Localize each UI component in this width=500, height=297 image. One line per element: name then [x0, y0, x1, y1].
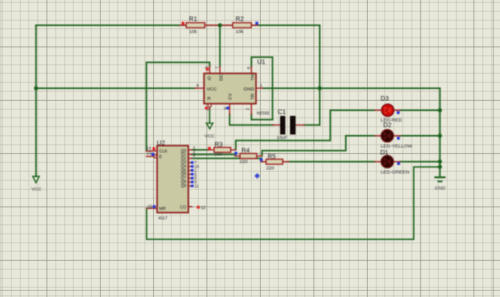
wire: U2 Q2 to R5 [192, 158, 262, 161]
IC U2 4017 counter [146, 140, 206, 220]
pin stub: U2 E pin13 [146, 155, 154, 157]
pin stub: U1 pin2 TR [250, 104, 252, 115]
pin stub: U2 MR pin15 [147, 207, 158, 209]
svg-text:Q9: Q9 [181, 183, 187, 188]
capacitor C1 [277, 109, 296, 140]
wire: U2 Q0 to R3 [192, 149, 209, 151]
svg-text:C1: C1 [278, 109, 287, 116]
node marker: blue diamond below R4/R5 [254, 173, 260, 179]
resistor R4 [240, 148, 257, 166]
resistor R1 [186, 16, 205, 35]
U1 pin4 inversion bubble [208, 104, 211, 107]
svg-text:R: R [207, 96, 211, 102]
wire: LED cathode bus vertical to GND [439, 88, 441, 176]
node: junction GND wire / C1 vertical [318, 86, 322, 90]
pin stub: D3 leads [375, 109, 400, 111]
IC U1 NE555 timer [196, 59, 270, 115]
node: junction VCC rail / pin8 [34, 86, 38, 90]
svg-text:LED-GREEN: LED-GREEN [381, 170, 410, 176]
wire: U1 R pin4 to VCC arrow [209, 109, 211, 124]
logic-state dots blue: U2 Q3..Q9 [191, 161, 194, 164]
resistor R5 [266, 153, 283, 171]
node: junction R1/R2/pin7 [218, 23, 222, 27]
logic-state dot red: U1 pin4 [205, 107, 208, 110]
resistor R3 [214, 142, 231, 158]
pin stub: U1 pin1 GND [256, 87, 263, 89]
pin stub: U1 pin3 Q [209, 67, 211, 74]
logic-state dot blue: U1 pin5 [226, 107, 229, 110]
svg-text:Q: Q [207, 76, 211, 82]
wire: U1 GND pin 1 to LED cathode bus [262, 87, 440, 89]
wire: D2 cathode to bus [400, 135, 440, 137]
logic-state dot red: U1 pin3 [206, 68, 209, 71]
pin stub: U1 pin7 DC [219, 67, 221, 74]
pin stub: R1 leads [180, 24, 217, 26]
svg-text:R5: R5 [268, 153, 277, 160]
svg-text:6: 6 [246, 66, 251, 69]
LED D2 (LED-YELLOW, off) [381, 122, 413, 150]
svg-text:220: 220 [214, 152, 222, 158]
wire: U1 TR pin2 to TH loop [251, 114, 272, 120]
wire: R4 to D2 anode [262, 136, 375, 156]
wire: U1 Q pin3 down-left to U2 CLK [146, 62, 209, 150]
svg-text:DC: DC [218, 73, 224, 80]
svg-text:4017: 4017 [158, 215, 168, 220]
wire: U1 TH pin6 loop to TR [251, 57, 272, 120]
node: junction bus / MR return [438, 165, 442, 169]
power terminal VCC (left) [33, 176, 39, 182]
wire: left VCC terminal vertical [35, 25, 37, 176]
wire: R5 to D1 anode [288, 161, 376, 163]
ground GND terminal [434, 177, 445, 181]
pin stub: D1 leads [375, 161, 400, 163]
wire: C1 right lead to vertical [304, 124, 320, 126]
logic-state dot blue: D3 right [397, 111, 400, 114]
svg-text:TH: TH [250, 74, 256, 81]
svg-text:7: 7 [214, 66, 219, 69]
svg-text:2: 2 [245, 107, 250, 110]
svg-text:D3: D3 [381, 96, 390, 103]
pin stub: C1 leads [273, 124, 305, 126]
svg-text:15: 15 [147, 204, 152, 209]
svg-text:E: E [159, 154, 162, 159]
node: junction bus / D2 [438, 134, 442, 138]
logic-state dot blue: R2 right [255, 22, 258, 25]
pin stub: R5 leads [262, 161, 289, 163]
pin stub: U1 pin5 CV [229, 104, 231, 115]
logic-state dot red: U2 CLK [153, 147, 156, 150]
svg-text:U1: U1 [257, 59, 266, 66]
svg-text:MR: MR [159, 206, 166, 211]
resistor R2 [233, 16, 252, 35]
node: junction bus / D1 [438, 160, 442, 164]
wire: U1 DC pin7 up to R1/R2 junction [219, 25, 221, 66]
svg-text:VCC: VCC [205, 133, 216, 139]
pin stub: U2 Q0..Q9,CO right stubs [188, 150, 191, 207]
logic-state dot blue: U2 MR [153, 205, 156, 208]
svg-text:10k: 10k [236, 29, 244, 35]
pin stub: R3 leads [208, 149, 236, 151]
pin stub: U1 pin8 VCC [195, 87, 204, 89]
svg-text:R3: R3 [215, 142, 224, 149]
svg-text:U2: U2 [157, 140, 166, 147]
wire: VCC rail top horizontal [36, 24, 320, 26]
svg-text:VCC: VCC [31, 186, 42, 192]
pin stub: D2 leads [375, 135, 400, 137]
svg-text:R1: R1 [189, 16, 198, 23]
svg-text:D1: D1 [380, 150, 389, 157]
logic-state dot blue: R4 left [235, 152, 238, 155]
svg-text:CO: CO [180, 205, 186, 210]
wire: D3 cathode to bus [400, 109, 440, 111]
pin stub: R2 leads [223, 24, 258, 26]
power terminal VCC (under U1 pin4) [206, 123, 213, 129]
logic-state dot blue: R5 left [260, 158, 263, 161]
wire: D1 cathode to bus [400, 161, 440, 163]
svg-text:GND: GND [244, 86, 255, 92]
svg-text:D2: D2 [383, 122, 392, 129]
pin stub: R4 leads [235, 155, 262, 157]
svg-text:GND: GND [435, 186, 446, 192]
logic-state dot blue: D1 right [397, 162, 400, 165]
svg-text:CV: CV [228, 92, 234, 99]
svg-text:220: 220 [240, 159, 248, 165]
logic-state dot blue: U2 E [151, 153, 154, 156]
svg-text:11: 11 [194, 184, 199, 189]
wire: R3 to D3 anode [236, 110, 375, 150]
svg-text:13: 13 [146, 151, 151, 156]
logic-state dot red: R1 left [182, 22, 185, 25]
svg-text:8: 8 [196, 83, 199, 88]
wire: U2 MR ground return along bottom [147, 167, 440, 239]
logic-state dot red: U2 CO [197, 206, 200, 209]
node: junction bus / D3 [438, 108, 442, 112]
wire: U2 Q1 to R4 [192, 155, 236, 157]
svg-text:220: 220 [266, 165, 274, 171]
LED D3 (LED-RED, lit) [381, 96, 403, 124]
svg-text:CLK: CLK [159, 149, 167, 154]
svg-text:VCC: VCC [207, 86, 218, 92]
svg-text:R2: R2 [236, 16, 245, 23]
svg-text:NE555: NE555 [257, 111, 270, 116]
LED D1 (LED-GREEN, off) [380, 150, 410, 176]
wire: right vertical from R2 to C1 right lead [319, 25, 321, 125]
pin stub: U1 pin4 R below bubble [209, 107, 211, 109]
wire: VCC rail to U1 pin 8 [36, 87, 195, 89]
pin stub: U2 CLK pin14 [146, 150, 157, 152]
logic-state dot red: R3 left [208, 147, 211, 150]
svg-text:12: 12 [201, 205, 206, 210]
pin stub: U1 pin6 TH [250, 67, 252, 74]
svg-text:R4: R4 [242, 148, 251, 155]
logic-state dot blue: D2 right [397, 137, 400, 140]
svg-text:10k: 10k [189, 29, 197, 35]
svg-text:TR: TR [250, 93, 256, 100]
svg-text:10uF: 10uF [277, 135, 288, 140]
wire: U1 CV pin5 to C1 left [230, 114, 274, 125]
svg-text:1: 1 [260, 83, 263, 88]
U2 pin E inversion bubble [154, 155, 157, 158]
